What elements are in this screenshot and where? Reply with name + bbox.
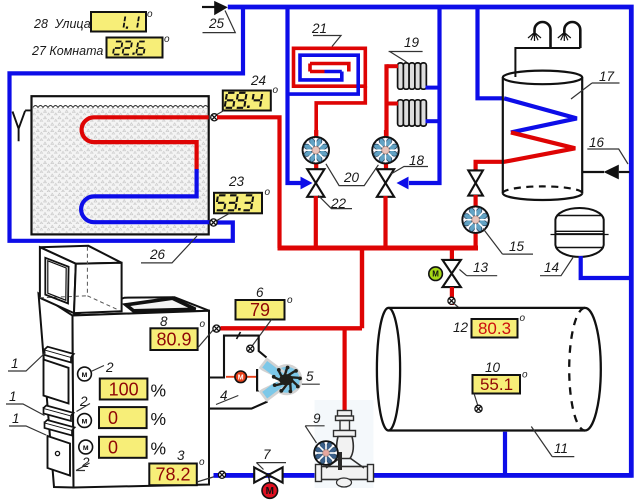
pump 15 xyxy=(462,207,488,233)
svg-text:12: 12 xyxy=(453,320,469,335)
chimney front panel xyxy=(45,258,68,304)
blue arrow into valve 18 xyxy=(397,177,409,190)
svg-text:17: 17 xyxy=(599,69,615,84)
svg-text:28 Улица: 28 Улица xyxy=(33,17,91,31)
coil red supply xyxy=(82,117,209,170)
floor heating spiral 21 blue xyxy=(288,55,359,94)
wire red pump 20a xyxy=(314,130,318,170)
boiler door slab middle xyxy=(44,406,74,422)
svg-text:79: 79 xyxy=(250,300,270,320)
tank 17 body xyxy=(503,77,582,193)
svg-text:M: M xyxy=(266,486,274,497)
pump 20a xyxy=(303,137,329,163)
mixing valve 18 xyxy=(377,169,394,197)
radiator 19 lower xyxy=(398,100,427,126)
wire red pump 20b xyxy=(384,130,388,170)
label 1c leader xyxy=(9,426,46,435)
arrow 16 tail xyxy=(619,171,630,173)
wire blue return bus xyxy=(214,473,633,477)
sensor sensor 8 xyxy=(213,325,220,332)
tank 17 outline xyxy=(503,71,582,200)
svg-text:18: 18 xyxy=(409,153,425,168)
sensor sensor 12 xyxy=(448,297,455,304)
fan inlet flange xyxy=(256,369,259,392)
svg-text:19: 19 xyxy=(404,35,420,50)
svg-text:26: 26 xyxy=(149,247,166,262)
wire red below valve 18 xyxy=(383,196,387,248)
svg-text:5: 5 xyxy=(306,369,314,384)
svg-text:M: M xyxy=(238,374,244,381)
svg-text:o: o xyxy=(147,9,153,20)
svg-text:2: 2 xyxy=(105,360,114,375)
flue break mark xyxy=(237,332,241,339)
faucet right xyxy=(564,22,580,48)
svg-text:78.2: 78.2 xyxy=(155,465,190,485)
label 23 leader xyxy=(216,213,230,221)
display box display 8 xyxy=(150,328,197,350)
display box display 3 xyxy=(149,464,197,486)
svg-text:21: 21 xyxy=(311,21,327,36)
boiler lower door xyxy=(48,436,71,476)
svg-text:1: 1 xyxy=(11,356,19,371)
wire red pump 15 drop xyxy=(474,195,478,250)
svg-text:o: o xyxy=(164,34,170,45)
label 21 leader xyxy=(313,36,341,47)
boiler chimney front face xyxy=(40,247,76,313)
laddomat unit 9 background xyxy=(315,400,374,488)
svg-text:100: 100 xyxy=(109,380,139,400)
svg-text:80.3: 80.3 xyxy=(478,319,511,338)
svg-text:o: o xyxy=(287,295,293,306)
pump 20b xyxy=(372,137,398,163)
valve 7 stem xyxy=(268,475,269,483)
svg-text:%: % xyxy=(151,381,167,401)
svg-text:55.1: 55.1 xyxy=(480,375,513,394)
flue duct upper xyxy=(209,336,267,378)
label 19 leader xyxy=(389,52,423,63)
svg-text:27 Комната: 27 Комната xyxy=(31,44,103,58)
pipe to arrow 16 xyxy=(582,171,604,173)
display box display 2 percent 100 xyxy=(100,379,148,400)
wire red from store to manifold xyxy=(217,117,280,248)
svg-text:o: o xyxy=(273,85,279,96)
blue arrow into valve 22 xyxy=(301,177,313,190)
valve above pump 15 xyxy=(468,170,483,195)
motor M fan 1 xyxy=(78,367,92,381)
sensor sensor 10 xyxy=(475,405,482,412)
wire red below valve 22 xyxy=(314,196,318,248)
label 22 leader xyxy=(318,196,352,209)
wire red stub radiator upper xyxy=(387,64,399,68)
boiler top face xyxy=(73,297,210,315)
motor M green valve 13 xyxy=(429,267,443,281)
label 2b mark xyxy=(77,404,91,412)
wire blue main ring top-right-bottom xyxy=(214,7,632,475)
display box display 23 xyxy=(214,193,262,214)
flag 25 triangle xyxy=(214,1,228,15)
label 5 underline xyxy=(302,383,320,385)
label 26 leader xyxy=(141,236,197,263)
wire blue tank 11 outlet xyxy=(503,432,507,473)
label 10 sensor leader xyxy=(474,394,478,406)
digits 53.3 xyxy=(216,195,254,210)
boiler front face xyxy=(73,311,210,488)
motor M red valve 7 xyxy=(262,483,278,499)
laddomat unit 9 body xyxy=(316,411,374,488)
wire blue into arrow 18 xyxy=(409,181,426,185)
buffer tank 11 body xyxy=(377,308,601,431)
wire blue radiator return drop xyxy=(426,7,440,183)
motor M fan 2 xyxy=(78,414,92,428)
svg-text:6: 6 xyxy=(256,285,264,300)
svg-text:0: 0 xyxy=(108,408,118,428)
label 17 leader xyxy=(571,83,620,99)
svg-text:o: o xyxy=(522,370,528,381)
label 13 leader xyxy=(460,270,498,276)
display box display 12 xyxy=(472,319,518,338)
label 2c mark xyxy=(76,463,90,471)
wire red below valve 13 xyxy=(450,287,454,305)
label 15 leader xyxy=(483,229,533,255)
svg-text:%: % xyxy=(151,409,167,429)
wire blue stub radiator upper xyxy=(426,86,442,90)
display box display 10 xyxy=(473,375,521,394)
svg-text:9: 9 xyxy=(313,411,321,426)
expansion vessel 14 xyxy=(551,208,609,257)
floor heating spiral 21 red xyxy=(294,48,366,137)
wire red manifold bus xyxy=(278,246,479,251)
antenna symbol xyxy=(13,110,32,141)
coil blue return xyxy=(81,169,210,222)
label 7 leader xyxy=(256,463,286,470)
laddomat pump wheel xyxy=(314,441,338,465)
boiler chimney right face xyxy=(74,263,122,313)
wire red above valve 13 xyxy=(450,248,454,262)
digits 1.1 xyxy=(123,17,139,29)
svg-text:25: 25 xyxy=(208,16,225,31)
display box display 2 percent 0a xyxy=(99,407,147,428)
boiler door slab lower xyxy=(45,420,75,436)
motor valve 13 xyxy=(443,260,461,287)
svg-text:1: 1 xyxy=(12,411,20,426)
wire blue into tank 17 xyxy=(478,7,505,98)
svg-text:8: 8 xyxy=(160,314,168,329)
svg-text:11: 11 xyxy=(554,441,568,456)
svg-text:23: 23 xyxy=(228,174,245,189)
svg-text:м: м xyxy=(82,370,88,379)
display box display 24 xyxy=(223,91,271,111)
label 9 leader xyxy=(305,426,324,443)
flag 25 pole xyxy=(202,6,215,8)
water level scallops xyxy=(33,106,208,108)
wire red boiler supply xyxy=(221,326,363,330)
label 11 leader xyxy=(531,427,574,457)
sensor sensor 24 xyxy=(211,114,218,121)
heat accumulator box 26 xyxy=(32,96,209,234)
wire blue stub radiator lower xyxy=(426,119,442,123)
label 24 leader xyxy=(216,111,224,116)
label 25 leader xyxy=(203,11,236,33)
motor M fan 5 xyxy=(235,371,247,383)
wire blue drop to valve 22 xyxy=(288,7,302,183)
motor M fan 3 xyxy=(79,440,93,454)
svg-text:м: м xyxy=(83,443,89,452)
svg-text:16: 16 xyxy=(589,135,605,150)
wire red down to laddomat 9 xyxy=(343,328,347,411)
svg-text:%: % xyxy=(151,439,167,459)
label 14 leader xyxy=(540,258,573,276)
label 8 leader xyxy=(198,330,214,349)
display box display 6 xyxy=(236,300,285,320)
svg-text:2: 2 xyxy=(81,455,90,470)
boiler chimney top face xyxy=(40,246,122,264)
label 3 leader xyxy=(197,476,218,483)
boiler door slab upper xyxy=(45,347,74,363)
label 2a leader xyxy=(91,366,104,372)
tank 17 heat exchanger red xyxy=(476,132,576,172)
wire red radiator feed xyxy=(384,64,388,137)
wire red into laddomat xyxy=(343,400,347,413)
boiler big door xyxy=(44,360,69,404)
display box display 2 percent 0b xyxy=(99,437,147,458)
svg-text:o: o xyxy=(199,457,205,468)
svg-text:24: 24 xyxy=(250,73,266,88)
flue duct lower xyxy=(209,402,268,409)
boiler left face xyxy=(39,294,74,488)
fan motor link xyxy=(226,376,256,378)
wire blue vessel 14 connection xyxy=(581,256,631,278)
svg-text:10: 10 xyxy=(485,360,501,375)
svg-text:0: 0 xyxy=(108,438,118,458)
svg-text:o: o xyxy=(265,187,271,198)
label 16 leader xyxy=(587,149,628,164)
svg-text:M: M xyxy=(432,270,439,279)
svg-text:м: м xyxy=(82,416,88,425)
svg-text:20: 20 xyxy=(343,170,360,185)
flue fan 5 xyxy=(258,359,302,400)
chimney hidden edges xyxy=(40,247,120,311)
wire red riser from boiler line xyxy=(360,248,364,328)
faucet left xyxy=(535,22,551,48)
wire blue outdoor loop xyxy=(10,7,244,241)
svg-text:80.9: 80.9 xyxy=(156,330,191,350)
boiler grate on top xyxy=(126,298,196,311)
label 1b leader xyxy=(6,404,45,416)
faucet supply pipe xyxy=(515,48,580,77)
svg-text:3: 3 xyxy=(177,448,185,463)
label 6 leader xyxy=(252,320,272,347)
label 20 leader xyxy=(326,164,379,186)
label 4 mark xyxy=(216,396,238,405)
display box display 27 room temp xyxy=(107,38,163,58)
sensor sensor 23 xyxy=(210,219,217,226)
svg-text:14: 14 xyxy=(544,260,559,275)
label 1a leader xyxy=(8,353,46,372)
digits 69.4 xyxy=(225,93,263,108)
wire red stub radiator lower xyxy=(387,102,399,106)
label 12 leader xyxy=(454,303,472,319)
radiator 19 upper xyxy=(398,63,427,89)
svg-text:o: o xyxy=(520,313,526,324)
sensor sensor 3 xyxy=(218,471,225,478)
display box display 28 street temp xyxy=(91,12,146,32)
arrow 16 triangle xyxy=(604,165,619,180)
svg-text:13: 13 xyxy=(473,260,489,275)
label 18 leader xyxy=(391,167,428,175)
svg-text:1: 1 xyxy=(9,389,17,404)
svg-text:o: o xyxy=(200,319,206,330)
digits 22.6 xyxy=(113,42,146,55)
svg-text:7: 7 xyxy=(263,447,271,462)
mixing valve 22 xyxy=(307,169,324,197)
motor valve 7 xyxy=(254,467,282,482)
sensor sensor 6 xyxy=(247,345,254,352)
tank 17 heat exchanger blue xyxy=(504,98,577,132)
svg-text:15: 15 xyxy=(509,239,525,254)
